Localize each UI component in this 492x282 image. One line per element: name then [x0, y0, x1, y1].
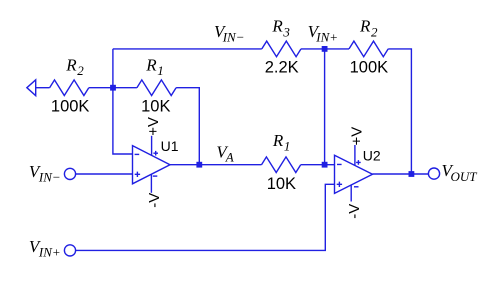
resistor R1 (upper, 10K): [137, 80, 176, 96]
svg-text:U1: U1: [161, 138, 179, 154]
wire R2 to R1 through node: [89, 87, 137, 89]
wire R3 to R2 through top node: [301, 48, 349, 50]
terminal VIN- input: [64, 168, 75, 179]
U2 inverting input marker: [337, 163, 342, 165]
junction node VIN+ top: [322, 46, 328, 52]
svg-text:3: 3: [282, 24, 290, 39]
wire VIN- to U1 non-inverting input: [76, 173, 133, 175]
svg-text:10K: 10K: [141, 98, 170, 116]
wire arrow to R2: [36, 87, 50, 89]
terminal VIN+ input: [64, 245, 75, 256]
junction node R2/R1/feedback: [110, 85, 116, 91]
svg-text:R: R: [65, 55, 77, 74]
wire left vertical feedback into U1 inverting input: [113, 49, 133, 154]
svg-text:1: 1: [157, 63, 164, 78]
wire U2 output to VOUT: [373, 173, 429, 175]
U2 negative supply pin: [350, 185, 352, 201]
wire VIN+ run to U2 non-inverting input: [76, 184, 335, 250]
svg-text:R: R: [272, 131, 284, 150]
svg-text:IN+: IN+: [38, 245, 61, 260]
svg-text:100K: 100K: [350, 59, 389, 77]
wire R1 to U2 inverting input: [301, 164, 335, 166]
U1 negative supply marker: [153, 175, 158, 177]
op-amp U2 triangle: [335, 155, 373, 193]
wire VIN+ vertical net top to U2 input: [324, 49, 326, 165]
junction node VA: [196, 162, 202, 168]
svg-text:U2: U2: [363, 147, 381, 163]
svg-text:10K: 10K: [267, 175, 296, 193]
svg-text:IN−: IN−: [222, 30, 245, 45]
svg-text:R: R: [271, 17, 283, 36]
svg-text:R: R: [359, 17, 371, 36]
wire R2 right and down to output node: [388, 49, 411, 174]
U2 non-inverting input marker: [337, 182, 342, 187]
wire top bus VIN-: [113, 48, 262, 50]
svg-text:2: 2: [77, 63, 84, 78]
svg-text:A: A: [225, 150, 234, 165]
resistor R1 (lower, 10K): [262, 157, 301, 173]
U1 non-inverting input marker: [135, 172, 140, 177]
terminal VOUT output: [428, 168, 439, 179]
junction node VOUT: [409, 171, 415, 177]
resistor R2 (right, 100K): [349, 41, 388, 57]
svg-text:100K: 100K: [51, 97, 90, 115]
U1 negative supply pin: [150, 174, 152, 193]
svg-text:+V: +V: [145, 117, 162, 136]
svg-text:2: 2: [371, 24, 378, 39]
svg-text:-V: -V: [146, 193, 163, 208]
input port arrow (left end of R2): [27, 80, 36, 96]
svg-text:OUT: OUT: [451, 169, 478, 184]
U2 negative supply marker: [354, 186, 359, 188]
U2 positive supply marker: [356, 160, 361, 165]
svg-text:IN+: IN+: [315, 30, 338, 45]
svg-text:-V: -V: [346, 204, 363, 219]
junction node U2 inverting input: [322, 162, 328, 168]
wire U1 output to R1: [170, 164, 262, 166]
U2 positive supply pin: [354, 145, 356, 165]
wire R1 right down to node VA: [176, 88, 199, 165]
svg-text:+V: +V: [348, 127, 365, 146]
svg-text:R: R: [145, 55, 157, 74]
svg-text:1: 1: [284, 139, 291, 154]
U1 inverting input marker: [135, 153, 140, 155]
op-amp U1 triangle: [133, 146, 171, 184]
U1 positive supply marker: [153, 151, 158, 156]
svg-text:IN−: IN−: [38, 169, 61, 184]
resistor R2 (left, 100K): [50, 80, 89, 96]
resistor R3 (2.2K): [262, 41, 301, 57]
svg-text:2.2K: 2.2K: [265, 59, 299, 77]
U1 positive supply pin: [151, 136, 153, 156]
